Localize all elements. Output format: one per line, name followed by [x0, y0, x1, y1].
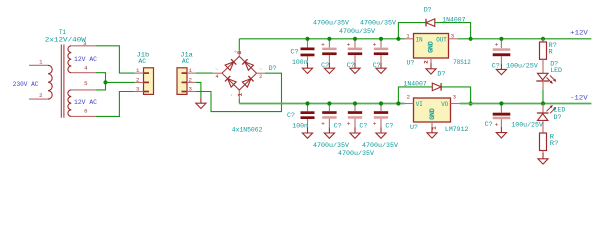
ground at LED chain — [538, 153, 548, 164]
wire trafo pin3 to J1b pin1 — [96, 46, 135, 73]
svg-text:C?: C? — [334, 123, 342, 131]
wire trafo pin6 to J1b pin3 — [96, 92, 135, 117]
wire J1a pin3 to bridge AC2 — [196, 73, 282, 111]
regulator LM7912 pin GND stub — [431, 122, 433, 127]
transformer T1 secondary pin 3 — [71, 45, 96, 47]
connector J1b body — [144, 68, 154, 95]
regulator U? LM7912 body — [414, 98, 451, 122]
svg-text:R?: R? — [550, 140, 559, 148]
ground at bottom C100n — [302, 127, 312, 138]
wire center tap to J1b pin2 — [106, 81, 135, 83]
svg-text:D?: D? — [554, 114, 562, 122]
svg-text:AC: AC — [139, 58, 147, 66]
junction 1N4007 bottom left — [396, 101, 400, 105]
svg-text:230V AC: 230V AC — [13, 81, 39, 89]
junction bottom rail cap #3 — [379, 101, 383, 105]
junction top rail cap #2 — [353, 37, 357, 41]
svg-text:LED: LED — [554, 106, 566, 114]
junction -12V cap — [499, 101, 503, 105]
transformer T1 primary pin 2 — [29, 98, 48, 100]
wire bridge - down — [238, 99, 240, 104]
svg-text:OUT: OUT — [436, 36, 447, 43]
svg-text:LED: LED — [550, 67, 562, 75]
svg-text:1N4007: 1N4007 — [404, 80, 427, 88]
svg-text:3: 3 — [83, 40, 86, 47]
svg-text:C?: C? — [321, 62, 329, 70]
svg-text:C?: C? — [492, 63, 500, 71]
resistor R? lower — [540, 133, 547, 153]
regulator 78S12 pin IN — [405, 38, 414, 40]
wire bridge + to top rail — [238, 39, 240, 51]
svg-text:2: 2 — [136, 77, 139, 84]
svg-text:2x12V/40W: 2x12V/40W — [45, 37, 87, 45]
junction 1N4007 top left — [396, 37, 400, 41]
wire LED upper to -12V rail — [542, 90, 544, 104]
svg-text:U?: U? — [410, 124, 418, 132]
connector J1b contact ticks — [144, 73, 150, 91]
svg-text:VI: VI — [416, 101, 423, 108]
ground at J1a pin2 — [196, 97, 206, 108]
capacitor C? 100n top — [301, 39, 315, 62]
svg-text:2: 2 — [189, 77, 192, 84]
junction top rail cap #3 — [379, 37, 383, 41]
wire -12V rail — [460, 103, 592, 105]
svg-text:4700u/35V: 4700u/35V — [360, 19, 397, 27]
junction +12V cap — [499, 37, 503, 41]
wire top raw rail — [239, 38, 404, 40]
ground at -12V cap — [496, 127, 506, 138]
junction +12V LED chain — [541, 37, 545, 41]
svg-text:VO: VO — [441, 101, 448, 108]
connector J1b pin 3 — [135, 91, 144, 93]
svg-text:+: + — [495, 42, 499, 49]
bridge diode upper-left — [225, 59, 236, 70]
svg-text:5: 5 — [84, 80, 87, 87]
junction 1N4007 top right — [469, 37, 473, 41]
junction -12V LED chain — [541, 101, 545, 105]
capacitor C? 4700u/35V bottom #2 — [347, 104, 362, 128]
connector J1a pin 1 — [187, 72, 196, 74]
transformer T1 secondary pin 5 — [71, 89, 96, 91]
svg-text:100u/25V: 100u/25V — [511, 122, 543, 130]
svg-text:D?: D? — [437, 70, 445, 78]
svg-text:C?: C? — [359, 123, 367, 131]
transformer T1 primary winding — [48, 65, 52, 99]
capacitor C? 4700u/35V bottom #3 — [373, 104, 388, 128]
wire +12V rail — [458, 38, 592, 40]
svg-text:GND: GND — [428, 41, 436, 53]
svg-text:78S12: 78S12 — [453, 59, 470, 67]
bridge diode lower-left — [225, 76, 236, 87]
bridge diode upper-right — [242, 59, 253, 70]
svg-text:R: R — [548, 49, 552, 57]
transformer T1 secondary winding A — [68, 46, 71, 73]
junction bottom rail cap #2 — [353, 101, 357, 105]
svg-text:-: - — [229, 94, 235, 97]
svg-text:-12V: -12V — [570, 94, 589, 102]
connector J1b pin 2 — [135, 81, 144, 83]
regulator 78S12 pin GND stub — [430, 58, 432, 63]
transformer T1 secondary winding B — [68, 90, 71, 117]
svg-text:3: 3 — [237, 51, 243, 54]
svg-text:4700u/35V: 4700u/35V — [338, 150, 375, 158]
svg-text:~: ~ — [215, 67, 219, 73]
capacitor C? 4700u/35V top #3 — [373, 39, 388, 63]
svg-text:GND: GND — [429, 108, 437, 120]
connector J1a contact ticks — [182, 73, 188, 91]
svg-text:+: + — [373, 121, 377, 128]
resistor R? upper — [540, 39, 547, 74]
connector J1b pin 1 — [135, 72, 144, 74]
svg-text:100n: 100n — [292, 123, 308, 131]
capacitor C? 4700u/35V top #1 — [321, 39, 337, 63]
svg-text:IN: IN — [416, 36, 423, 43]
svg-text:+: + — [495, 122, 499, 129]
svg-text:D?: D? — [424, 7, 432, 15]
transformer T1 core — [61, 45, 64, 118]
svg-text:AC: AC — [182, 58, 190, 66]
bridge diode lower-right — [242, 76, 253, 87]
connector J1a pin 2 — [187, 81, 196, 83]
ground at top cap #3 — [376, 62, 386, 73]
svg-text:+: + — [321, 41, 325, 48]
svg-text:100u/25V: 100u/25V — [506, 63, 538, 71]
regulator 78S12 pin OUT — [449, 38, 458, 40]
wire trafo pin4/pin5 center tap join — [96, 73, 106, 90]
wire J1a pin2 to ground — [196, 82, 201, 97]
svg-text:C?: C? — [287, 112, 295, 120]
svg-text:C?: C? — [291, 48, 299, 56]
svg-text:2: 2 — [39, 92, 42, 99]
wire 1N4007 top left drop — [398, 23, 425, 39]
svg-text:C?: C? — [373, 62, 381, 70]
svg-text:6: 6 — [84, 108, 87, 115]
svg-text:+: + — [373, 41, 377, 48]
bridge diamond edges — [222, 56, 257, 90]
svg-text:3: 3 — [453, 94, 456, 101]
capacitor C? 100n bottom — [301, 104, 315, 128]
svg-text:D?: D? — [269, 65, 277, 73]
svg-text:4: 4 — [215, 74, 218, 80]
svg-text:+: + — [321, 121, 325, 128]
svg-text:+: + — [347, 121, 351, 128]
svg-text:2: 2 — [259, 74, 262, 80]
ground at LM7912 — [427, 127, 437, 138]
LED D? upper — [536, 73, 556, 90]
svg-text:LM7912: LM7912 — [445, 126, 469, 134]
ground at top cap #2 — [350, 62, 360, 73]
svg-text:100n: 100n — [292, 59, 308, 67]
transformer T1 primary pin 1 — [29, 64, 48, 66]
wire bottom raw rail — [239, 103, 404, 105]
connector J1a body — [177, 68, 187, 95]
regulator LM7912 pin VO — [451, 103, 460, 105]
junction top rail cap #1 — [327, 37, 331, 41]
ground at top C100n — [302, 62, 312, 73]
regulator U? 78S12 body — [414, 34, 449, 59]
bridge rectifier D? outline pins — [213, 50, 265, 98]
svg-text:4x1N5062: 4x1N5062 — [232, 126, 263, 134]
ground at bottom cap #3 — [376, 127, 386, 138]
ground at 78S12 — [426, 63, 436, 74]
svg-text:3: 3 — [136, 86, 139, 93]
capacitor C? 4700u/35V bottom #1 — [321, 104, 337, 128]
svg-text:C?: C? — [485, 121, 493, 129]
svg-text:C?: C? — [385, 123, 393, 131]
connector J1a pin 3 — [187, 91, 196, 93]
capacitor C? 100u/25V bottom — [493, 104, 511, 129]
junction bottom rail cap #1 — [327, 101, 331, 105]
ground at top cap #1 — [324, 62, 334, 73]
ground at +12V cap — [496, 64, 506, 75]
junction top rail C100n — [305, 37, 309, 41]
transformer T1 secondary pin 6 — [71, 115, 96, 117]
junction 1N4007 bottom right — [469, 101, 473, 105]
wire J1a pin1 to bridge AC1 — [196, 72, 213, 74]
diode D? 1N4007 top — [426, 19, 435, 27]
svg-text:12V AC: 12V AC — [74, 56, 97, 64]
capacitor C? 4700u/35V top #2 — [347, 39, 362, 63]
svg-text:+12V: +12V — [570, 30, 589, 38]
svg-text:1: 1 — [237, 93, 243, 96]
svg-text:2: 2 — [407, 94, 410, 101]
regulator LM7912 pin VI — [405, 103, 414, 105]
transformer T1 secondary pin 4 — [71, 72, 96, 74]
svg-text:3: 3 — [189, 86, 192, 93]
svg-text:4700u/35V: 4700u/35V — [313, 142, 350, 150]
svg-text:+: + — [347, 41, 351, 48]
ground at bottom cap #2 — [350, 127, 360, 138]
LED D? lower — [537, 104, 556, 134]
svg-text:2: 2 — [424, 60, 430, 63]
wire 1N4007 bottom right drop — [442, 87, 471, 104]
ground at bottom cap #1 — [324, 127, 334, 138]
svg-text:12V AC: 12V AC — [74, 99, 97, 107]
capacitor C? 100u/25V top — [493, 39, 511, 64]
wire 1N4007 top right drop — [435, 23, 471, 39]
svg-text:4700u/35V: 4700u/35V — [313, 19, 350, 27]
svg-text:C?: C? — [347, 62, 355, 70]
svg-text:1N4007: 1N4007 — [442, 16, 465, 24]
svg-text:4700u/35V: 4700u/35V — [362, 142, 399, 150]
diode D? 1N4007 bottom — [432, 83, 441, 91]
junction center tap — [103, 80, 107, 84]
svg-text:U?: U? — [407, 59, 415, 67]
svg-text:4700u/35V: 4700u/35V — [339, 28, 376, 36]
junction bottom rail C100n — [305, 101, 309, 105]
svg-text:3: 3 — [451, 33, 454, 40]
svg-text:~: ~ — [259, 67, 263, 73]
wire 1N4007 bottom left rise — [398, 87, 432, 104]
